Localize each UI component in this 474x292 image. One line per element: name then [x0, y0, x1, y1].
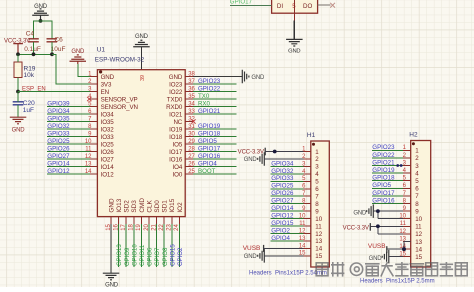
wire (U1 pin 33 to GPIO21): [193, 113, 237, 115]
wire (GPIO4 to H1 pin 13): [271, 240, 304, 242]
wire (GPIO27 to U1 pin 12): [47, 158, 90, 160]
svg-text:6: 6: [415, 186, 419, 193]
wire (GPIO22 to H2 pin 2): [372, 157, 403, 159]
svg-text:IO4: IO4: [173, 164, 183, 171]
svg-text:10: 10: [415, 216, 422, 223]
svg-text:EN: EN: [101, 89, 109, 96]
wire (U1 pin 16 to GPIO13): [118, 224, 120, 267]
junction (H1 pin1): [273, 150, 277, 154]
pin 4 of H1: [302, 169, 319, 178]
svg-text:GND: GND: [244, 157, 258, 163]
net label GPIO13: [117, 244, 123, 266]
pin 9 of H1: [302, 206, 319, 215]
ground (below U1 pin 15): [103, 273, 120, 288]
pin 26 IO4: [173, 161, 196, 170]
svg-text:Headers Pins1x15P 2.54mm: Headers Pins1x15P 2.54mm: [249, 271, 327, 277]
svg-text:GPIO17: GPIO17: [198, 145, 221, 152]
pin 39 number: [140, 75, 146, 81]
svg-text:8: 8: [315, 201, 319, 208]
svg-text:GPIO8: GPIO8: [163, 247, 169, 266]
net label GPIO33: [271, 175, 294, 182]
svg-text:C6: C6: [54, 36, 63, 43]
capacitor C4: [24, 31, 41, 53]
svg-text:GPIO26: GPIO26: [271, 190, 294, 197]
wire (VCC rail to caps): [18, 53, 52, 55]
net label GPIO12: [271, 213, 294, 220]
ground (below C20): [10, 117, 27, 133]
svg-text:GPIO14: GPIO14: [47, 160, 70, 167]
svg-text:RXD0: RXD0: [166, 104, 183, 111]
svg-text:13: 13: [315, 238, 322, 245]
pin 15 of H1: [299, 251, 323, 260]
pin 4 SENSOR_VP: [88, 94, 137, 103]
svg-text:GND: GND: [353, 210, 367, 216]
pin 5 of H1: [302, 176, 319, 185]
net label GPIO34: [271, 160, 294, 167]
svg-text:IO27: IO27: [101, 156, 115, 163]
svg-text:ESP-WROOM-32: ESP-WROOM-32: [95, 57, 145, 64]
svg-text:GPIO34: GPIO34: [47, 108, 70, 115]
net label GPIO32: [271, 168, 294, 175]
wire (GPIO25 to H1 pin 6): [271, 188, 304, 190]
ground (above U1, pin 1 GND): [70, 49, 87, 64]
pin 21 SD0: [151, 200, 161, 231]
wire (GPIO12 to U1 pin 14): [47, 173, 90, 175]
net label GPIO9: [125, 247, 131, 266]
wire (GPIO27 to H1 pin 8): [271, 203, 304, 205]
wire (U1 pin 34 to RX0): [193, 106, 237, 108]
svg-text:9: 9: [315, 208, 319, 215]
svg-text:GND: GND: [288, 48, 300, 54]
wire (U1 pin 37 to GPIO23): [193, 83, 237, 85]
svg-text:GPIO32: GPIO32: [47, 123, 70, 130]
wire (U1 pin 38 to GND port): [193, 76, 242, 78]
pin 32 NC: [173, 116, 195, 125]
svg-text:GND: GND: [71, 49, 85, 55]
svg-text:GPIO2: GPIO2: [271, 227, 290, 234]
svg-text:GPIO25: GPIO25: [271, 183, 294, 190]
svg-text:GND: GND: [105, 283, 119, 288]
svg-text:NC: NC: [173, 119, 182, 126]
svg-text:12: 12: [315, 231, 322, 238]
junction (H2 VCC branch): [376, 224, 380, 228]
svg-text:GPIO17: GPIO17: [372, 190, 395, 197]
pin 10 of H1: [299, 214, 323, 223]
caption H1 Headers Pins1x15P 2.54mm: [249, 271, 327, 277]
wire (GPIO34 to H1 pin 3): [271, 165, 304, 167]
net label GPIO21: [198, 108, 221, 115]
wire (U1 pin 19 to GPIO11): [140, 224, 142, 267]
svg-text:GPIO17: GPIO17: [230, 0, 253, 6]
svg-text:GND: GND: [108, 198, 115, 213]
svg-text:GPIO33: GPIO33: [47, 130, 70, 137]
pin 6 of H2: [403, 183, 420, 192]
net label GPIO17: [372, 190, 395, 197]
svg-text:Headers Pins1x15P 2.5mm: Headers Pins1x15P 2.5mm: [360, 278, 435, 284]
pin 12 of H2: [399, 229, 422, 238]
net label GPIO15: [271, 220, 294, 227]
pin 7 of H1: [302, 191, 319, 200]
svg-text:7: 7: [315, 194, 319, 201]
wire (GND to H1 pin 2): [264, 158, 303, 160]
pin 23 IO15: [167, 198, 177, 231]
wire (U1 pin 21 to GPIO7): [156, 224, 158, 267]
wire (U1 pin 30 to GPIO18): [193, 136, 237, 138]
wire (VUSB to H1 pin 14): [264, 247, 304, 249]
svg-text:IO34: IO34: [101, 111, 115, 118]
svg-text:C4: C4: [26, 31, 35, 38]
net label GPIO27: [47, 153, 70, 160]
pin 10 IO25: [85, 139, 114, 148]
svg-text:GPIO14: GPIO14: [271, 205, 294, 212]
svg-text:GPIO22: GPIO22: [372, 152, 395, 159]
svg-text:GPIO2: GPIO2: [178, 247, 184, 266]
pin 34 RXD0: [166, 101, 195, 110]
wire (R19 to ESP_EN): [17, 78, 19, 92]
pin 14 of H1: [299, 243, 323, 252]
svg-text:CLK: CLK: [146, 199, 153, 212]
net label GPIO11: [140, 244, 146, 266]
pin 3 of H2: [403, 160, 420, 169]
svg-text:SD2: SD2: [124, 200, 131, 213]
svg-text:U1: U1: [97, 46, 106, 53]
wire (GPIO33 to H1 pin 5): [271, 180, 304, 182]
svg-text:3V3: 3V3: [101, 81, 112, 88]
svg-text:11: 11: [415, 224, 422, 231]
pin 7 IO35: [88, 116, 114, 125]
net label GPIO12: [47, 168, 70, 175]
net label RX0: [198, 100, 211, 107]
svg-text:GPIO5: GPIO5: [198, 138, 217, 145]
svg-text:GPIO21: GPIO21: [198, 108, 221, 115]
svg-text:VUSB: VUSB: [243, 245, 261, 252]
junction (H2 pin 3 row): [396, 164, 402, 167]
svg-text:1uF: 1uF: [23, 107, 34, 114]
capacitor C6: [47, 36, 66, 53]
wire (U1 pin 20 to GPIO6): [148, 224, 150, 267]
IC U2 (DI/DO, clipped at top): [272, 0, 318, 13]
capacitor C20: [13, 100, 35, 114]
svg-text:SENSOR_VP: SENSOR_VP: [101, 96, 138, 103]
net label GPIO2: [271, 227, 290, 234]
net label GPIO19: [372, 167, 395, 174]
wire (GPIO25 to U1 pin 10): [47, 143, 90, 145]
wire (U1 pin 18 to GPIO10): [133, 224, 135, 267]
pin 12 IO27: [85, 154, 114, 163]
svg-text:GPIO16: GPIO16: [372, 197, 395, 204]
svg-text:VCC-3.3V: VCC-3.3V: [238, 150, 264, 156]
net label GPIO21: [372, 159, 395, 166]
svg-text:GPIO9: GPIO9: [125, 247, 131, 266]
junction (H2 GND branch): [376, 209, 380, 213]
pin 38 GND: [169, 71, 196, 80]
pin 17 SD2: [121, 200, 131, 231]
pin 6 IO34: [88, 109, 114, 118]
wire (GPIO26 to U1 pin 11): [47, 151, 90, 153]
svg-text:IO15: IO15: [169, 198, 176, 212]
pin 2 of H2: [403, 153, 420, 162]
junction (C6 bottom / 3V3 feed): [50, 52, 54, 56]
pin 25 IO0: [173, 169, 196, 178]
pin 15 GND: [106, 198, 116, 231]
net label GPIO27: [271, 198, 294, 205]
junction (caps top): [39, 19, 43, 23]
svg-text:9: 9: [415, 208, 419, 215]
wire (GPIO12 to H1 pin 10): [271, 218, 304, 220]
svg-text:GPIO32: GPIO32: [271, 168, 294, 175]
pin 16 IO13: [113, 198, 123, 231]
net label GPIO39: [47, 100, 70, 107]
svg-text:GND: GND: [251, 75, 265, 81]
wire (U1 pin 27 to GPIO16): [193, 158, 237, 160]
wire (U1 pin 31 to GPIO19): [193, 128, 237, 130]
net label BOOT: [198, 168, 216, 175]
wire (GPIO23 to H2 pin 1): [372, 149, 403, 151]
svg-text:GPIO18: GPIO18: [372, 175, 395, 182]
svg-text:GPIO27: GPIO27: [271, 198, 294, 205]
ground (U1 pin 39 pad): [133, 34, 150, 47]
svg-text:IO18: IO18: [169, 134, 183, 141]
svg-text:GPIO22: GPIO22: [198, 85, 221, 92]
svg-text:DI: DI: [277, 3, 283, 10]
svg-text:GPIO12: GPIO12: [271, 213, 294, 220]
pin 9 of H2: [403, 206, 420, 215]
net label GPIO22: [198, 85, 221, 92]
pin 6 of H1: [302, 184, 319, 193]
pin 36 IO22: [169, 86, 195, 95]
svg-text:GPIO23: GPIO23: [372, 144, 395, 151]
svg-text:7: 7: [415, 193, 419, 200]
svg-text:1: 1: [415, 148, 419, 155]
pin 1 of H2: [403, 145, 420, 154]
net label GPIO33: [47, 130, 70, 137]
wire (GND to U1 pin 1): [78, 64, 97, 77]
pin 24 IO2: [174, 202, 184, 231]
wire (ESP_EN to C20): [17, 92, 19, 102]
svg-text:10uF: 10uF: [51, 46, 66, 53]
svg-text:4: 4: [315, 171, 319, 178]
power port VCC-3.3V (H2 pin 11): [343, 223, 371, 231]
svg-text:DO: DO: [303, 3, 312, 10]
svg-text:12: 12: [415, 231, 422, 238]
svg-text:IO35: IO35: [101, 119, 115, 126]
svg-text:GPIO10: GPIO10: [132, 244, 138, 266]
pin DI: [277, 3, 283, 10]
net label GPIO14: [271, 205, 294, 212]
wire (U1 pin 25 to BOOT): [193, 173, 237, 175]
svg-text:11: 11: [315, 223, 322, 230]
wire (C6 bottom): [51, 42, 53, 55]
pin 20 CLK: [144, 199, 154, 230]
no-connect (DO): [330, 3, 335, 8]
wire (GPIO14 to U1 pin 13): [47, 166, 90, 168]
svg-text:4: 4: [415, 170, 419, 177]
svg-text:IO19: IO19: [169, 126, 183, 133]
svg-text:39: 39: [140, 75, 146, 81]
wire (GPIO14 to H1 pin 9): [271, 210, 304, 212]
wire (U1 pin 22 to GPIO8): [163, 224, 165, 267]
pin 35 TXD0: [167, 94, 196, 103]
pin 15 of H2: [399, 252, 422, 261]
svg-text:IO21: IO21: [169, 111, 183, 118]
svg-text:3: 3: [315, 164, 319, 171]
pin 8 IO32: [88, 124, 114, 133]
net label GPIO26: [47, 145, 70, 152]
wire (U1 pin 28 to GPIO17): [193, 151, 237, 153]
svg-text:SENSOR_VN: SENSOR_VN: [101, 104, 138, 111]
wire (GPIO5 to H2 pin 6): [372, 187, 403, 189]
junction (ESP_EN node): [16, 90, 20, 94]
pin 31 IO19: [169, 124, 195, 133]
pin 14 of H2: [399, 244, 422, 253]
wire (VCC-3.3V to H2 pins 11-12): [370, 226, 403, 234]
svg-text:GPIO13: GPIO13: [117, 244, 123, 266]
designator H1: [307, 132, 316, 139]
junction (VCC/R19): [16, 52, 20, 56]
watermark: [316, 263, 467, 276]
pin 2 of H1: [302, 154, 319, 163]
wire (DO no-connect): [318, 4, 331, 6]
svg-text:GPIO15: GPIO15: [271, 220, 294, 227]
svg-text:IO17: IO17: [169, 149, 183, 156]
svg-text:15: 15: [415, 254, 422, 261]
net label GPIO15: [170, 244, 176, 266]
pin 37 IO23: [169, 79, 195, 88]
power port GND (H1 pin 2): [244, 152, 265, 166]
pin 7 of H2: [403, 191, 420, 200]
svg-text:IO12: IO12: [101, 171, 115, 178]
net label GPIO7: [155, 247, 161, 266]
svg-text:10: 10: [315, 216, 322, 223]
svg-text:IO2: IO2: [177, 202, 184, 213]
net label GPIO17: [198, 145, 221, 152]
net label GPIO32: [47, 123, 70, 130]
junction (C4 bottom): [32, 52, 36, 56]
svg-text:5: 5: [315, 179, 319, 186]
svg-text:VUSB: VUSB: [368, 243, 386, 250]
wire (U1 pin 29 to GPIO5): [193, 143, 237, 145]
svg-text:GPIO5: GPIO5: [372, 182, 391, 189]
net label GPIO19: [198, 123, 221, 130]
svg-text:IO5: IO5: [173, 141, 183, 148]
wire (GPIO32 to U1 pin 8): [47, 128, 90, 130]
wire (GND to H1 pin 15): [264, 255, 303, 257]
power port GND (H2 pin 9): [353, 204, 373, 218]
svg-text:GND: GND: [101, 74, 115, 81]
svg-text:6: 6: [315, 186, 319, 193]
pin 14 IO12: [85, 169, 114, 178]
svg-text:GPIO26: GPIO26: [47, 145, 70, 152]
svg-text:SD3: SD3: [131, 200, 138, 213]
ground (right of U1 pin 38): [242, 70, 265, 84]
net label GPIO10: [132, 244, 138, 266]
power port VUSB (H2 pin 14): [368, 243, 387, 253]
wire (GPIO39 to U1 pin 5): [47, 106, 90, 108]
ground (top-left, above C4/C6): [32, 4, 49, 21]
svg-text:VCC-3.3V: VCC-3.3V: [343, 225, 369, 231]
power port VUSB (H1 pin 14): [243, 245, 264, 252]
pin 13 IO14: [85, 161, 114, 170]
svg-text:2: 2: [415, 155, 419, 162]
svg-text:RX0: RX0: [198, 100, 211, 107]
svg-text:H1: H1: [307, 132, 316, 139]
wire (GPIO35 to U1 pin 7): [47, 121, 90, 123]
net label GPIO18: [198, 130, 221, 137]
pin 2 3V3: [88, 79, 112, 88]
connector H2 body: [411, 141, 431, 268]
svg-text:IO23: IO23: [169, 81, 183, 88]
wire (GPIO2 to H1 pin 12): [271, 232, 304, 234]
wire (caps top rail): [34, 21, 52, 39]
wire (U1 pin 23 to GPIO15): [171, 224, 173, 267]
pin 4 of H2: [403, 168, 420, 177]
wire (GPIO34 to U1 pin 6): [47, 113, 90, 115]
net label GPIO35: [47, 115, 70, 122]
wire (GPIO17 to H2 pin 7): [372, 195, 403, 197]
net label GPIO2: [178, 247, 184, 266]
designator H2: [409, 132, 418, 139]
svg-text:0.1uF: 0.1uF: [24, 46, 41, 53]
svg-text:TX0: TX0: [198, 93, 210, 100]
wire (GPIO33 to U1 pin 9): [47, 136, 90, 138]
svg-text:GPIO16: GPIO16: [198, 153, 221, 160]
net label GPIO23: [198, 78, 221, 85]
pin 28 IO17: [169, 146, 195, 155]
wire (VUSB to H2 pins 13-14): [387, 242, 411, 250]
net label GPIO14: [47, 160, 70, 167]
pin 8 of H2: [403, 198, 420, 207]
pin 5 of H2: [403, 176, 420, 185]
pin 5 SENSOR_VN: [88, 101, 138, 110]
net label GPIO5: [372, 182, 391, 189]
net label GPIO4: [271, 235, 290, 242]
svg-text:14: 14: [415, 246, 422, 253]
net label GPIO6: [148, 247, 154, 266]
pin 10 of H2: [399, 214, 422, 223]
net label GPIO34: [47, 108, 70, 115]
pin 29 IO5: [173, 139, 196, 148]
net label GPIO4: [198, 160, 217, 167]
pin 9 IO33: [88, 131, 114, 140]
svg-text:TXD0: TXD0: [167, 96, 183, 103]
net label GPIO17 (clipped): [230, 0, 253, 6]
power port VCC-3.3V (H1 pin 1): [238, 148, 266, 156]
svg-text:15: 15: [315, 253, 322, 260]
wire (pin 5 to ground): [293, 21, 295, 40]
wire (GND to H2 pin 15): [389, 256, 403, 258]
svg-text:GPIO39: GPIO39: [47, 100, 70, 107]
wire (VCC to R19): [17, 54, 19, 62]
net label GPIO25: [271, 183, 294, 190]
svg-text:IO0: IO0: [173, 171, 183, 178]
svg-text:GPIO18: GPIO18: [198, 130, 221, 137]
svg-text:GPIO25: GPIO25: [47, 138, 70, 145]
no-connect pin 4: [87, 97, 91, 101]
wire (U1 pin 24 to GPIO2): [178, 224, 180, 267]
svg-text:GPIO34: GPIO34: [271, 160, 294, 167]
wire (U1 pin 36 to GPIO22): [193, 91, 237, 93]
wire (VCC-3.3V to H1 pin 1): [265, 151, 303, 153]
net label GPIO22: [372, 152, 395, 159]
wire (GPIO15 to H1 pin 11): [271, 225, 304, 227]
connector H1 body: [311, 141, 330, 267]
svg-text:IO22: IO22: [169, 89, 183, 96]
svg-text:BOOT: BOOT: [198, 168, 216, 175]
pin 18 SD3: [129, 200, 139, 231]
svg-text:GPIO33: GPIO33: [271, 175, 294, 182]
pin 33 IO21: [169, 109, 195, 118]
svg-text:GPIO12: GPIO12: [47, 168, 70, 175]
